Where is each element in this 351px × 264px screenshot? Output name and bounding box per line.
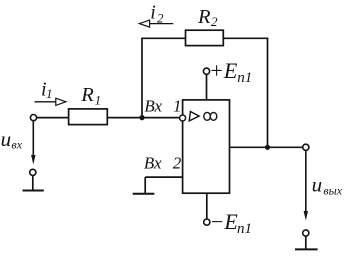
- node B: junction of feedback and output wire: [265, 145, 270, 150]
- infinity gain symbol inside U1: [204, 112, 217, 120]
- svg-text:2: 2: [211, 14, 218, 29]
- svg-text:вх: вх: [12, 137, 23, 151]
- output lower terminal circle: [303, 230, 309, 236]
- inversion bubble at op-amp input pin Bx1: [180, 115, 186, 121]
- wire: op-amp output to output terminal: [230, 146, 303, 148]
- u_vyx arrow (output voltage): [305, 151, 307, 213]
- u_vx arrow (input voltage): [32, 121, 34, 156]
- node A: junction of R1, feedback and op-amp input: [139, 115, 144, 120]
- wire: R1 to op-amp inverting input: [107, 117, 180, 119]
- -En1 terminal circle: [204, 219, 210, 225]
- current arrow i2: [139, 20, 173, 27]
- wire: top feedback horizontal right segment: [223, 37, 268, 39]
- svg-text:+E: +E: [209, 58, 238, 83]
- svg-text:u: u: [312, 173, 323, 197]
- resistor R1: [69, 109, 108, 125]
- wire: Bx2 input horizontal: [145, 176, 182, 178]
- svg-text:−E: −E: [210, 209, 239, 234]
- input terminal circle: [30, 115, 36, 121]
- svg-text:1: 1: [173, 96, 182, 115]
- svg-text:вых: вых: [323, 183, 342, 197]
- svg-text:R: R: [197, 6, 211, 28]
- output terminal circle: [303, 144, 309, 150]
- wire: top feedback horizontal left segment: [141, 37, 185, 39]
- wire: input horizontal from input terminal to R1: [37, 117, 69, 119]
- svg-text:п1: п1: [237, 221, 252, 237]
- svg-text:Вх: Вх: [144, 96, 162, 115]
- svg-text:п1: п1: [237, 70, 252, 86]
- current arrow i1: [35, 98, 66, 105]
- input lower terminal circle: [30, 169, 36, 175]
- svg-text:1: 1: [46, 86, 53, 101]
- svg-text:2: 2: [157, 10, 164, 25]
- svg-text:Вх: Вх: [144, 154, 162, 173]
- wire: Bx2 ground vertical: [144, 177, 146, 194]
- wire: left feedback vertical: [141, 38, 143, 117]
- wire: +En1 supply vertical: [206, 74, 208, 100]
- svg-text:u: u: [1, 127, 12, 151]
- wire: input ground vertical: [32, 176, 34, 191]
- svg-text:R: R: [80, 84, 94, 106]
- svg-text:1: 1: [95, 92, 102, 107]
- op-amp U1 rectangle: [183, 100, 230, 193]
- resistor R2: [186, 30, 224, 45]
- ground bar at output: [295, 248, 318, 250]
- svg-text:i: i: [150, 2, 156, 24]
- amplifier triangle symbol inside U1: [189, 112, 199, 121]
- ground bar for Bx2: [133, 193, 155, 195]
- ground bar at input: [23, 190, 44, 192]
- +En1 terminal circle: [203, 68, 209, 74]
- wire: -En1 supply vertical: [206, 193, 208, 219]
- wire: output ground vertical: [305, 236, 307, 249]
- svg-text:2: 2: [173, 154, 182, 173]
- wire: right feedback vertical: [267, 38, 269, 147]
